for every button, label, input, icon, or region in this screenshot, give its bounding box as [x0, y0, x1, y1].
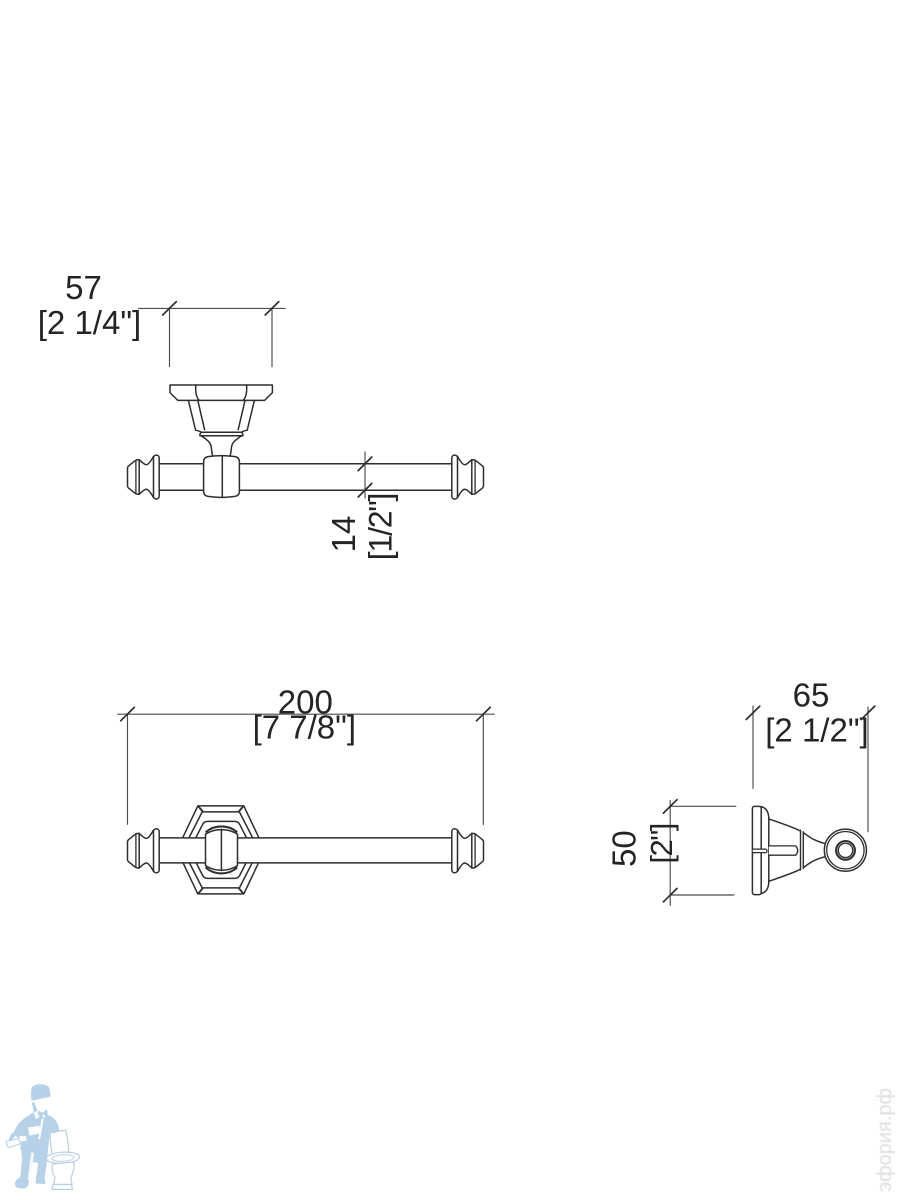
dim 65 text [765, 677, 868, 749]
trousers [20, 1148, 48, 1181]
leg separation [28, 1153, 35, 1181]
bell bottom slope [769, 869, 801, 881]
left forearm [9, 1133, 21, 1146]
cap brim shadow [32, 1098, 49, 1103]
svg-text:57: 57 [65, 269, 102, 306]
tick 14 top [358, 457, 372, 471]
extension line left [127, 714, 129, 824]
taper outer left [188, 400, 195, 430]
dim 50 text [606, 824, 679, 867]
bell outline [761, 807, 769, 894]
hexagon corner bevels [199, 807, 243, 894]
collar arcs (bold) [206, 826, 236, 831]
bell top slope [769, 819, 801, 831]
flange facet left [196, 385, 200, 400]
collar white [34, 1111, 40, 1120]
svg-text:[2 1/4"]: [2 1/4"] [38, 304, 141, 341]
pocket patch [28, 1126, 41, 1136]
finial left (top view) [128, 455, 160, 499]
extension line right [482, 714, 484, 824]
bar (top view) [159, 464, 452, 490]
svg-text:[1/2"]: [1/2"] [362, 494, 398, 560]
tick 14 bottom [358, 483, 372, 497]
torso / jacket [18, 1112, 50, 1154]
wall plate (side) [752, 806, 761, 894]
face details (light) [32, 1102, 38, 1115]
taper facet left [198, 400, 205, 430]
svg-text:[2"]: [2"] [644, 824, 679, 863]
svg-text:65: 65 [793, 677, 830, 714]
barrel seam (top view) [221, 456, 223, 498]
bell back edge [761, 807, 769, 894]
lid (raised) [50, 1130, 69, 1156]
dim 200 text [253, 684, 356, 746]
stem left curve [202, 436, 213, 456]
finial left (front view) [128, 829, 160, 873]
barrel (front view) [206, 830, 238, 871]
plate slot [753, 849, 767, 853]
dim 14 text [325, 494, 398, 560]
stem right curve [230, 436, 241, 456]
dim 57 line [139, 308, 286, 366]
cuff [12, 1136, 19, 1144]
dim 14 vertical line [364, 452, 366, 498]
taper outer right [247, 400, 254, 430]
boss (rounded hexagon) [191, 821, 252, 878]
bowtie [38, 1109, 48, 1117]
left upper arm [13, 1117, 27, 1139]
lapel streak [38, 1118, 43, 1140]
ring inner [836, 841, 855, 860]
svg-text:14: 14 [325, 516, 362, 553]
base [52, 1185, 73, 1190]
dim 57 text [38, 269, 141, 341]
white separations on figure [12, 1111, 43, 1181]
seat ring inner [52, 1154, 74, 1162]
extension line right [271, 308, 273, 366]
right shoulder+arm down to lid [45, 1114, 60, 1138]
collar [196, 430, 248, 436]
dim 50 [670, 801, 736, 906]
collar band [801, 830, 804, 870]
tick right [477, 707, 491, 720]
plumber figure [9, 1084, 60, 1188]
bowl pedestal [52, 1162, 74, 1185]
right boot [36, 1174, 46, 1184]
svg-text:[2 1/2"]: [2 1/2"] [765, 711, 868, 748]
tick 65 left [746, 706, 760, 719]
ring second [827, 832, 864, 869]
wall flange (top view) [170, 385, 272, 400]
hexagon inner rim [183, 812, 259, 888]
dim 65 extension lines [753, 706, 868, 832]
tick 50 bottom [663, 888, 677, 901]
dim 200 line [118, 714, 495, 824]
hand on wrench [19, 1135, 28, 1142]
svg-text:эфория.рф: эфория.рф [874, 1088, 896, 1192]
tick right [265, 302, 279, 315]
tick 65 right [861, 706, 875, 719]
barrel seam (front view) [220, 829, 222, 870]
finial right (front view) [452, 829, 484, 873]
left boot [15, 1178, 30, 1189]
cap [31, 1084, 51, 1100]
taper facet right [238, 400, 245, 430]
neck top [803, 833, 826, 844]
neck bottom [803, 857, 826, 868]
bar (front view) [159, 838, 452, 863]
flange facet right [243, 385, 247, 400]
toilet [46, 1130, 80, 1189]
ring inner 2 [838, 843, 852, 857]
bell slot [769, 846, 798, 855]
svg-text:50: 50 [606, 830, 643, 867]
tick left [121, 707, 135, 720]
barrel (top view) [204, 456, 240, 498]
hexagon outer [177, 806, 265, 894]
seat ring outer [46, 1151, 80, 1164]
tick 50 top [663, 800, 677, 813]
ring outer [824, 829, 866, 871]
extension line left [169, 308, 171, 366]
tick left [163, 302, 177, 315]
wrench [6, 1135, 27, 1147]
finial right (top view) [452, 455, 484, 499]
